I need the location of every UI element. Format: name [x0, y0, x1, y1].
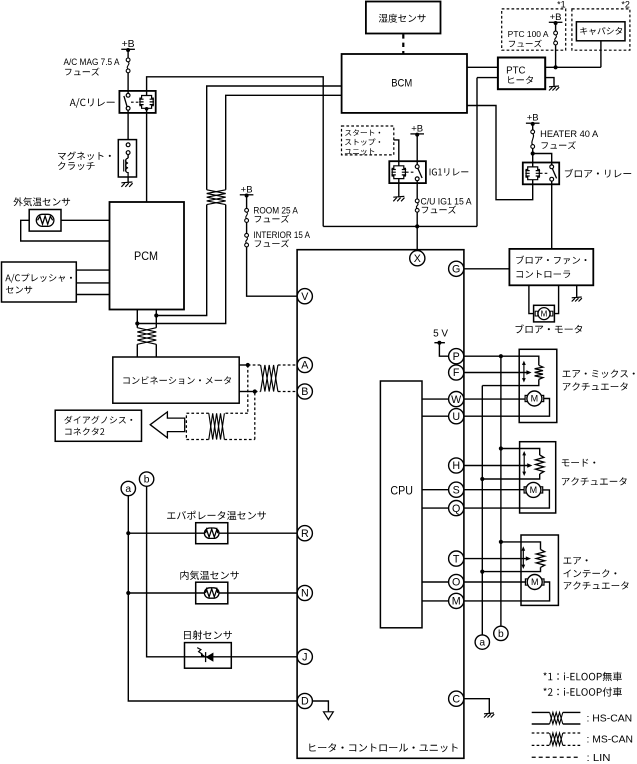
arrow to diagnosis connector	[150, 412, 185, 438]
svg-text:V: V	[301, 291, 309, 303]
svg-text:O: O	[452, 577, 460, 589]
wire HS-CAN 2 (BCM to PCM)	[137, 95, 341, 323]
node F	[449, 365, 464, 380]
fuse ROOM 25 A	[245, 208, 249, 212]
wire node F to air mix wiper	[464, 372, 529, 374]
node N	[297, 585, 312, 600]
svg-text:F: F	[453, 367, 460, 379]
motor (air intake)	[525, 579, 529, 585]
svg-text:J: J	[302, 652, 307, 664]
fuse A/C MAG 7.5 A	[126, 58, 130, 62]
svg-text:5 V: 5 V	[433, 328, 448, 339]
wires A/C pressure sensor to PCM	[76, 270, 109, 294]
BCM	[342, 54, 467, 113]
blower motor	[534, 305, 555, 322]
wire node H to mode wiper	[464, 465, 530, 467]
svg-text:W: W	[451, 394, 462, 406]
wire meter to node A (MS-CAN)	[239, 364, 248, 366]
svg-text:*1: *1	[557, 0, 566, 9]
node b (left)	[147, 486, 298, 656]
svg-text:C: C	[452, 693, 460, 705]
wire node S to mode motor	[464, 489, 526, 491]
svg-text:X: X	[414, 253, 421, 265]
wire A/C relay coil bottom to PCM	[146, 109, 148, 202]
power +B (IG1)	[416, 135, 418, 165]
svg-text:N: N	[301, 588, 309, 600]
photodiode (sun sensor)	[205, 652, 207, 662]
svg-text:T: T	[453, 553, 460, 565]
bus wire 2 (resistor return)	[481, 386, 483, 635]
motor (mode)	[524, 487, 528, 493]
node W	[449, 392, 464, 407]
power +B (HEATER)	[532, 124, 534, 166]
start-stop unit (dashed)	[342, 126, 394, 155]
node S	[449, 482, 464, 497]
twisted pair MS-CAN (diagnosis)	[209, 413, 225, 439]
svg-text:b: b	[498, 629, 504, 640]
svg-text:R: R	[301, 528, 309, 540]
node T	[449, 551, 464, 566]
svg-text:B: B	[301, 386, 308, 398]
svg-text:M: M	[452, 596, 461, 608]
ground (blower fan controller)	[576, 285, 578, 297]
ground triangle (node D)	[312, 701, 328, 712]
heater control unit box	[297, 250, 464, 759]
node D	[297, 693, 312, 708]
svg-text:M: M	[530, 485, 538, 495]
svg-text:: MS-CAN: : MS-CAN	[587, 735, 634, 746]
air intake actuator box	[521, 535, 558, 605]
twisted pair MS-CAN (meter)	[261, 365, 278, 392]
dashed box *2 (capacitor)	[572, 9, 630, 50]
wire node T to intake wiper	[464, 558, 528, 560]
node X	[410, 251, 425, 266]
blower fan controller	[509, 249, 593, 285]
dashed wires to diagnosis connector	[186, 365, 254, 440]
evaporator temp sensor	[196, 523, 228, 544]
PCM	[110, 202, 185, 310]
5V supply	[434, 342, 445, 344]
svg-text:G: G	[452, 264, 460, 276]
footnote *1	[543, 672, 622, 681]
legend MS-CAN	[532, 733, 581, 745]
A/C pressure sensor	[2, 262, 77, 302]
wire PTC heater to capacitor/fuse junction	[545, 66, 601, 68]
combination meter	[113, 357, 239, 403]
wiper (air mix)	[523, 364, 525, 380]
wire evaporator temp sensor to R	[128, 532, 297, 534]
wire PTC lower pin down to X-line	[476, 78, 478, 227]
inside air temp sensor	[196, 582, 228, 604]
svg-text:a: a	[479, 638, 485, 649]
svg-text:b: b	[144, 475, 150, 486]
wire node Q to mode motor	[464, 490, 550, 508]
wire outside air temp sensor to PCM	[21, 220, 110, 241]
fuse C/U IG1 15 A	[416, 181, 418, 227]
legend HS-CAN	[532, 712, 581, 724]
node A	[297, 357, 312, 372]
wire HS-CAN 1 (BCM to PCM)	[156, 86, 341, 316]
svg-text:A: A	[301, 360, 309, 372]
svg-text:a: a	[125, 484, 131, 495]
svg-text:PCM: PCM	[134, 249, 158, 263]
node H	[449, 458, 464, 473]
node R	[297, 526, 312, 541]
node a (right)	[475, 635, 489, 649]
CPU	[380, 381, 422, 628]
wire node M to intake motor	[464, 582, 550, 601]
sun sensor	[185, 643, 232, 669]
fuse HEATER 40 A	[531, 130, 535, 134]
svg-text:HEATER 40 A: HEATER 40 A	[540, 129, 599, 139]
wires CPU to nodes	[422, 399, 449, 601]
svg-text:C/U IG1 15 A: C/U IG1 15 A	[421, 196, 472, 206]
node O	[449, 574, 464, 589]
wires BCM to PTC heater	[467, 67, 498, 77]
twisted pair (PCM-meter)	[137, 328, 156, 345]
svg-text:M: M	[531, 577, 539, 587]
wire bus to mode resistor	[501, 449, 540, 456]
motor (air mix)	[525, 395, 529, 401]
humidity sensor	[366, 2, 441, 34]
node C	[449, 691, 464, 706]
node J	[297, 649, 312, 664]
node V	[297, 289, 312, 304]
svg-text:M: M	[531, 394, 539, 404]
magnet clutch	[118, 140, 136, 177]
svg-text:INTERIOR 15 A: INTERIOR 15 A	[253, 230, 310, 240]
svg-text:PTC 100 A: PTC 100 A	[508, 29, 549, 39]
diagnosis connector 2	[55, 410, 141, 441]
wire humidity sensor to BCM (LIN)	[402, 34, 404, 54]
wire A/C relay coil top to X-line	[147, 77, 324, 227]
svg-text:CPU: CPU	[390, 484, 413, 498]
node b (right)	[494, 626, 508, 640]
footnote *2	[543, 687, 622, 696]
wire node P to air mix resistor	[464, 356, 539, 365]
svg-text:PTC: PTC	[506, 65, 525, 76]
wire bus to intake resistor	[501, 542, 541, 550]
sensor outside air temp	[29, 210, 61, 232]
resistor (air intake)	[536, 550, 544, 568]
wire blower relay coil to BCM	[467, 106, 533, 200]
svg-text:D: D	[301, 696, 309, 708]
svg-text:S: S	[453, 484, 460, 496]
svg-text:M: M	[541, 310, 548, 319]
svg-text:P: P	[453, 351, 460, 363]
wire to node X	[416, 226, 418, 251]
svg-text:BCM: BCM	[391, 78, 412, 90]
bus wire 1 (P feed)	[500, 356, 502, 626]
wire inside air temp sensor to N	[128, 592, 297, 594]
resistor (air mix)	[535, 365, 543, 379]
capacitor	[576, 22, 625, 41]
fuse PTC 100 A	[554, 31, 558, 35]
wire +B to A/C relay switch	[127, 50, 129, 139]
power +B (PTC fuse)	[555, 23, 557, 67]
dashed box *1 (PTC fuse)	[502, 9, 566, 50]
legend LIN	[532, 756, 581, 758]
resistor (mode)	[536, 455, 544, 474]
fuse INTERIOR 15 A	[245, 233, 249, 237]
wire node W to air mix motor	[464, 398, 527, 400]
wire blower relay switch to fan controller	[551, 181, 553, 249]
wire node G to blower fan controller	[464, 268, 510, 270]
node G	[449, 261, 464, 276]
junction dots CAN	[135, 321, 139, 325]
relay IG1	[389, 161, 426, 183]
air mix actuator box	[519, 349, 557, 422]
svg-text:A/C MAG 7.5 A: A/C MAG 7.5 A	[64, 57, 120, 67]
svg-text:Q: Q	[452, 503, 460, 515]
relay A/C	[119, 91, 155, 113]
svg-text:*2: *2	[621, 0, 630, 9]
wiper (mode)	[523, 454, 525, 473]
wire blower relay switch feed	[531, 151, 535, 155]
power +B (ROOM/INTERIOR)	[247, 196, 298, 297]
svg-text:: HS-CAN: : HS-CAN	[587, 714, 633, 725]
PTC heater	[498, 58, 545, 90]
relay blower	[523, 163, 559, 185]
ground (magnet clutch)	[127, 177, 129, 182]
svg-text:ROOM 25 A: ROOM 25 A	[253, 205, 298, 215]
wire node C to ground	[464, 699, 489, 713]
wire meter to node B (MS-CAN)	[239, 391, 255, 393]
node a (left)	[128, 496, 297, 701]
svg-text:U: U	[452, 411, 460, 423]
node Q	[449, 501, 464, 516]
node B	[297, 384, 312, 399]
wire node O to intake motor	[464, 581, 527, 583]
svg-text:H: H	[452, 460, 460, 472]
wire PCM to combination meter pair	[136, 310, 138, 358]
node P	[449, 349, 464, 364]
mode actuator box	[520, 442, 556, 513]
node U	[449, 409, 464, 424]
wires controller to blower motor	[529, 285, 559, 313]
ground (IG1 relay coil)	[398, 179, 400, 197]
svg-text:: LIN: : LIN	[587, 753, 611, 764]
twisted pair HS-CAN	[207, 190, 226, 205]
wire X line (A/C relay / IG1 / PTC)	[323, 225, 477, 227]
wire node U to air mix motor	[464, 399, 550, 417]
wiper (air intake)	[522, 549, 524, 566]
wire start-stop to IG1 relay coil	[394, 140, 399, 166]
node M	[449, 593, 464, 608]
wire PTC heater to ground	[545, 78, 554, 86]
